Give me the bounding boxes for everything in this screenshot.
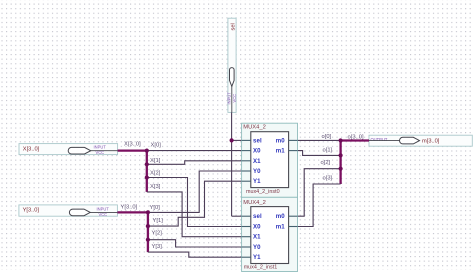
- svg-text:Y[3]: Y[3]: [152, 244, 163, 250]
- wire X[2]: [147, 178, 242, 227]
- wire o[3]: [298, 184, 341, 227]
- bus Y[3..0] thick: [117, 212, 147, 252]
- svg-text:Y[1]: Y[1]: [153, 218, 164, 224]
- svg-text:INPUT: INPUT: [227, 92, 232, 105]
- svg-text:mux4_2_inst1: mux4_2_inst1: [244, 264, 278, 270]
- svg-text:INPUT: INPUT: [97, 206, 110, 211]
- svg-text:X[2]: X[2]: [150, 170, 161, 176]
- wire Y[2]: [148, 240, 242, 247]
- svg-text:X[3..0]: X[3..0]: [124, 141, 141, 147]
- svg-text:m1: m1: [276, 148, 286, 155]
- svg-text:MUX4_2: MUX4_2: [243, 200, 266, 206]
- svg-text:m1: m1: [276, 224, 286, 231]
- wire sel to upper mux: [232, 139, 242, 141]
- svg-text:MUX4_2: MUX4_2: [243, 124, 266, 130]
- svg-text:INPUT: INPUT: [94, 145, 107, 150]
- junction dots o bus: [339, 138, 343, 142]
- svg-text:X[3..0]: X[3..0]: [23, 147, 40, 153]
- svg-text:o[3]: o[3]: [323, 175, 333, 181]
- op symbol MUX4_2 inst1: [242, 197, 298, 271]
- svg-text:Y0: Y0: [253, 168, 261, 175]
- input port Y[3..0]: [19, 205, 118, 217]
- svg-text:X[3]: X[3]: [150, 184, 161, 190]
- svg-text:sel: sel: [253, 137, 262, 144]
- svg-text:VCC: VCC: [99, 212, 108, 217]
- op symbol MUX4_2 inst0: [242, 123, 298, 197]
- svg-text:Y0: Y0: [253, 244, 261, 251]
- junction dot sel: [230, 138, 234, 142]
- wire Y[0]: [148, 171, 242, 212]
- svg-text:X[1]: X[1]: [150, 158, 161, 164]
- wire sel to lower mux: [232, 215, 242, 217]
- svg-text:Y[3..0]: Y[3..0]: [23, 208, 40, 214]
- svg-text:sel: sel: [230, 23, 236, 30]
- junction dots Y bus: [146, 210, 150, 214]
- wire X[1]: [147, 161, 242, 165]
- output port m[3..0]: [369, 135, 472, 146]
- svg-text:Y[0]: Y[0]: [150, 205, 161, 211]
- bus o[3..0] thick: [341, 141, 369, 185]
- junction dots X bus: [145, 149, 149, 153]
- bus X[3..0] thick: [118, 151, 147, 192]
- svg-text:Y1: Y1: [253, 178, 261, 185]
- wire o[1]: [298, 151, 341, 156]
- svg-text:X1: X1: [253, 234, 261, 241]
- svg-text:X0: X0: [253, 148, 261, 155]
- svg-text:VCC: VCC: [96, 150, 105, 155]
- svg-text:X1: X1: [253, 158, 261, 165]
- svg-text:o[2]: o[2]: [321, 160, 331, 166]
- svg-text:o[1]: o[1]: [323, 148, 333, 154]
- wire sel vertical: [231, 112, 233, 216]
- wire Y[1]: [148, 181, 242, 226]
- input port sel (vertical): [227, 18, 238, 112]
- svg-text:m0: m0: [276, 213, 286, 220]
- wire X[0]: [147, 150, 242, 152]
- wire o[2]: [298, 169, 341, 217]
- wire Y[3]: [148, 252, 242, 257]
- svg-text:m0: m0: [276, 137, 286, 144]
- wire X[3]: [147, 192, 242, 237]
- svg-text:Y[2]: Y[2]: [152, 231, 163, 237]
- input port X[3..0]: [19, 144, 118, 156]
- svg-text:o[0]: o[0]: [322, 134, 332, 140]
- wire o[0]: [298, 139, 341, 141]
- svg-text:VCC: VCC: [232, 94, 237, 103]
- svg-text:Y[3..0]: Y[3..0]: [121, 205, 138, 211]
- svg-text:X[0]: X[0]: [151, 142, 162, 148]
- svg-text:m[3..0]: m[3..0]: [422, 138, 440, 144]
- svg-text:Y1: Y1: [253, 254, 261, 261]
- svg-text:X0: X0: [253, 224, 261, 231]
- svg-text:o[3..0]: o[3..0]: [348, 134, 365, 140]
- svg-text:mux4_2_inst0: mux4_2_inst0: [246, 189, 280, 195]
- svg-text:sel: sel: [253, 213, 262, 220]
